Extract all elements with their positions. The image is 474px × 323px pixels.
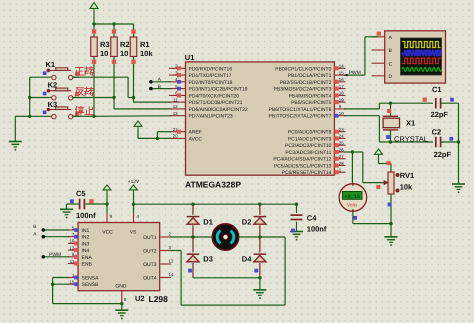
svg-text:ATMEGA328P: ATMEGA328P bbox=[185, 180, 241, 190]
svg-text:PB6/TOSC1/XTAL1/PCINT6: PB6/TOSC1/XTAL1/PCINT6 bbox=[268, 107, 331, 113]
svg-text:ENA: ENA bbox=[82, 255, 93, 261]
svg-text:13: 13 bbox=[169, 259, 174, 264]
svg-text:17: 17 bbox=[339, 84, 344, 89]
svg-text:PC5/ADC5/SCL/PCINT13: PC5/ADC5/SCL/PCINT13 bbox=[274, 164, 332, 170]
svg-text:19: 19 bbox=[339, 97, 344, 102]
svg-text:100nf: 100nf bbox=[307, 225, 327, 234]
svg-text:K3: K3 bbox=[48, 100, 58, 109]
svg-text:100nf: 100nf bbox=[76, 211, 96, 220]
svg-text:PC3/ADC3/PCINT11: PC3/ADC3/PCINT11 bbox=[285, 150, 331, 156]
svg-text:PC2/ADC2/PCINT10: PC2/ADC2/PCINT10 bbox=[285, 143, 332, 149]
svg-text:CRYSTAL: CRYSTAL bbox=[394, 134, 428, 143]
svg-text:D1: D1 bbox=[203, 218, 213, 227]
svg-text:9: 9 bbox=[110, 214, 113, 219]
svg-text:SENSA: SENSA bbox=[82, 276, 100, 282]
svg-text:PC4/ADC4/SDA/PCINT12: PC4/ADC4/SDA/PCINT12 bbox=[273, 157, 331, 163]
svg-text:PB0/ICP1/CLKO/PCINT0: PB0/ICP1/CLKO/PCINT0 bbox=[275, 66, 331, 72]
svg-text:D2: D2 bbox=[242, 218, 252, 227]
svg-text:IN3: IN3 bbox=[82, 241, 90, 247]
svg-text:22pF: 22pF bbox=[434, 150, 452, 159]
svg-text:14: 14 bbox=[339, 64, 344, 69]
svg-text:L298: L298 bbox=[149, 294, 169, 304]
svg-text:D4: D4 bbox=[242, 255, 252, 264]
svg-text:16: 16 bbox=[339, 77, 344, 82]
svg-text:PB7/TOSC2/XTAL2/PCINT7: PB7/TOSC2/XTAL2/PCINT7 bbox=[268, 114, 331, 120]
svg-text:PD7/AIN1/PCINT23: PD7/AIN1/PCINT23 bbox=[189, 114, 233, 120]
svg-text:PB2/SS/OC1B/PCINT2: PB2/SS/OC1B/PCINT2 bbox=[280, 80, 332, 86]
svg-text:AVCC: AVCC bbox=[189, 136, 203, 142]
svg-text:X1: X1 bbox=[406, 119, 415, 128]
svg-text:D3: D3 bbox=[203, 255, 213, 264]
svg-text:25: 25 bbox=[339, 141, 344, 146]
svg-text:R2: R2 bbox=[120, 40, 130, 49]
svg-text:AREF: AREF bbox=[189, 130, 202, 136]
svg-text:18: 18 bbox=[339, 91, 344, 96]
svg-text:15: 15 bbox=[69, 280, 74, 285]
svg-text:22pF: 22pF bbox=[431, 110, 449, 119]
svg-text:OUT4: OUT4 bbox=[143, 276, 157, 282]
svg-text:RV1: RV1 bbox=[400, 171, 414, 180]
svg-text:PD1/TXD/PCINT17: PD1/TXD/PCINT17 bbox=[189, 73, 232, 79]
svg-text:11: 11 bbox=[70, 259, 75, 264]
svg-text:28: 28 bbox=[339, 161, 344, 166]
svg-text:U1: U1 bbox=[185, 53, 195, 62]
svg-text:C5: C5 bbox=[76, 189, 86, 198]
svg-text:PD0/RXD/PCINT16: PD0/RXD/PCINT16 bbox=[189, 66, 233, 72]
svg-text:10k: 10k bbox=[140, 49, 153, 58]
svg-text:PD4/T0/XCK/PCINT20: PD4/T0/XCK/PCINT20 bbox=[189, 93, 240, 99]
svg-text:10: 10 bbox=[100, 49, 108, 58]
svg-text:23: 23 bbox=[339, 127, 344, 132]
svg-text:4: 4 bbox=[137, 214, 140, 219]
svg-text:+12V: +12V bbox=[128, 179, 140, 185]
svg-text:R3: R3 bbox=[100, 40, 110, 49]
svg-text:C4: C4 bbox=[307, 214, 317, 223]
svg-text:20: 20 bbox=[173, 134, 178, 139]
svg-text:IN2: IN2 bbox=[82, 235, 90, 241]
svg-text:C1: C1 bbox=[432, 85, 442, 94]
svg-text:PD5/T1/OC0B/PCINT21: PD5/T1/OC0B/PCINT21 bbox=[189, 100, 243, 106]
svg-text:VCC: VCC bbox=[102, 230, 113, 236]
svg-text:24: 24 bbox=[339, 134, 344, 139]
svg-text:OUT2: OUT2 bbox=[143, 249, 157, 255]
svg-text:PD6/AIN0/OC0A/PCINT22: PD6/AIN0/OC0A/PCINT22 bbox=[189, 107, 248, 113]
svg-text:15: 15 bbox=[339, 70, 344, 75]
svg-text:U2: U2 bbox=[135, 294, 145, 303]
svg-text:K1: K1 bbox=[46, 60, 56, 69]
svg-text:12: 12 bbox=[69, 245, 74, 250]
svg-text:OUT1: OUT1 bbox=[143, 235, 157, 241]
svg-text:IN4: IN4 bbox=[82, 248, 90, 254]
svg-text:VS: VS bbox=[130, 230, 137, 236]
svg-text:PB4/MISO/PCINT4: PB4/MISO/PCINT4 bbox=[289, 93, 332, 99]
svg-text:C: C bbox=[389, 61, 393, 67]
svg-text:C2: C2 bbox=[432, 128, 442, 137]
svg-text:PB1/OC1A/PCINT1: PB1/OC1A/PCINT1 bbox=[288, 73, 332, 79]
svg-text:+3.15: +3.15 bbox=[344, 194, 360, 200]
svg-text:GND: GND bbox=[115, 284, 127, 290]
svg-text:10: 10 bbox=[120, 49, 128, 58]
svg-text:PB3/MOSI/OC2A/PCINT3: PB3/MOSI/OC2A/PCINT3 bbox=[274, 87, 332, 93]
svg-text:R1: R1 bbox=[140, 40, 150, 49]
svg-text:11: 11 bbox=[173, 97, 178, 102]
svg-text:27: 27 bbox=[339, 154, 344, 159]
svg-text:PWM: PWM bbox=[49, 252, 61, 258]
svg-text:PC6/RESET/PCINT14: PC6/RESET/PCINT14 bbox=[282, 170, 332, 176]
svg-text:B: B bbox=[33, 224, 36, 230]
svg-text:IN1: IN1 bbox=[82, 228, 90, 234]
svg-text:K2: K2 bbox=[48, 81, 58, 90]
svg-text:PWM: PWM bbox=[349, 70, 361, 76]
svg-text:PB5/SCK/PCINT5: PB5/SCK/PCINT5 bbox=[291, 100, 332, 106]
svg-text:PC0/ADC0/PCINT8: PC0/ADC0/PCINT8 bbox=[288, 130, 332, 136]
svg-text:B: B bbox=[158, 84, 161, 90]
svg-text:10k: 10k bbox=[400, 182, 413, 191]
svg-text:10: 10 bbox=[69, 239, 74, 244]
svg-text:PC1/ADC1/PCINT9: PC1/ADC1/PCINT9 bbox=[288, 136, 332, 142]
svg-text:14: 14 bbox=[169, 272, 174, 277]
svg-text:ENB: ENB bbox=[82, 262, 93, 268]
svg-text:10: 10 bbox=[339, 111, 344, 116]
svg-text:PD2/INT0/PCINT18: PD2/INT0/PCINT18 bbox=[189, 80, 233, 86]
svg-text:12: 12 bbox=[173, 104, 178, 109]
svg-text:PD3/INT1/OC2B/PCINT19: PD3/INT1/OC2B/PCINT19 bbox=[189, 87, 248, 93]
svg-text:26: 26 bbox=[339, 147, 344, 152]
svg-text:Volts: Volts bbox=[347, 202, 358, 208]
svg-text:SENSB: SENSB bbox=[82, 282, 100, 288]
svg-text:OUT3: OUT3 bbox=[143, 262, 157, 268]
svg-text:D: D bbox=[389, 74, 393, 80]
svg-text:13: 13 bbox=[173, 111, 178, 116]
